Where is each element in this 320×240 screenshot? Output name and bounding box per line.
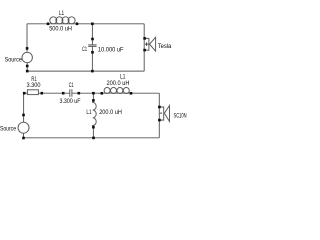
- svg-text:Source: Source: [5, 56, 23, 63]
- svg-text:C1: C1: [82, 46, 87, 53]
- terminal dot speaker SC10N upper stub: [158, 106, 161, 109]
- wire R1 to C1: [38, 92, 69, 94]
- wire top circuit: left rail lower: [26, 63, 28, 71]
- wire top circuit: top-left segment: [27, 23, 48, 25]
- svg-text:SC10N: SC10N: [174, 113, 187, 120]
- wire bottom circuit: top-left corner to R1: [24, 92, 28, 94]
- terminal dot L1 series right: [130, 92, 133, 95]
- junction node shunt L1 top: [92, 92, 95, 95]
- terminal dot C1 upper: [91, 38, 94, 41]
- wire C1 to L1: [72, 92, 104, 94]
- inductor L1 (top, 500.0 uH) coil loops: [50, 17, 57, 24]
- junction node source bottom corner: [22, 137, 25, 140]
- resistor R1 body: [27, 90, 38, 95]
- terminal dot C1 lower: [91, 51, 94, 54]
- terminal dot speaker Tesla lower stub: [143, 49, 146, 52]
- svg-text:C1: C1: [69, 82, 74, 89]
- minus sign (SC10N polarity): [160, 112, 162, 114]
- svg-text:3.300 uF: 3.300 uF: [60, 98, 81, 105]
- terminal dot L1 series left: [101, 92, 104, 95]
- terminal dot source bottom (upper): [22, 114, 25, 117]
- inductor L1 (bottom series, 200.0 uH) coil loops: [104, 88, 110, 94]
- speaker Tesla cone: [150, 37, 156, 51]
- terminal dot speaker SC10N lower stub: [158, 119, 161, 122]
- junction node shunt L1 bottom: [92, 137, 95, 140]
- wire bottom circuit: right rail: [158, 93, 160, 138]
- inductor L1 (shunt) coil loops: [93, 101, 97, 126]
- speaker Tesla box stubs and bar: [144, 38, 149, 50]
- capacitor C1 (top) plates: [88, 45, 96, 47]
- terminal dot C1 bottom-circuit right: [78, 92, 81, 95]
- svg-text:L1: L1: [86, 109, 92, 116]
- wire under top inductor loops: [48, 23, 77, 25]
- terminal dot speaker Tesla upper stub: [143, 37, 146, 40]
- inductor L1 (shunt) upper wire: [92, 93, 94, 101]
- terminal dot source top (lower): [26, 65, 29, 68]
- wire bottom circuit: left rail upper: [23, 93, 25, 122]
- wire under series inductor loops: [104, 92, 130, 94]
- junction node C1 top branch: [91, 23, 94, 26]
- wire L1 to right rail: [130, 92, 160, 94]
- inductor L1 (shunt) lower wire: [92, 126, 94, 138]
- capacitor C1 (top) upper branch wire: [91, 24, 93, 45]
- wire top circuit: left rail upper: [26, 24, 28, 53]
- junction node source top corner: [26, 70, 29, 73]
- wire bottom circuit: left rail lower: [23, 133, 25, 138]
- plus sign (Tesla polarity): [145, 42, 149, 46]
- svg-text:3.300: 3.300: [27, 82, 42, 89]
- svg-text:200.0 uH: 200.0 uH: [99, 109, 122, 116]
- wire top circuit: top-right segment: [77, 23, 144, 25]
- svg-text:Tesla: Tesla: [158, 43, 172, 50]
- capacitor C1 (bottom) plates: [70, 89, 72, 96]
- junction node C1 bottom: [91, 70, 94, 73]
- svg-text:Source: Source: [0, 125, 16, 132]
- svg-text:10.000 uF: 10.000 uF: [98, 46, 124, 53]
- terminal dot source top (upper): [26, 47, 29, 50]
- wire top circuit: right rail: [143, 24, 145, 71]
- terminal dot L1 top-right: [76, 23, 79, 26]
- source (top) circle: [22, 52, 32, 62]
- terminal dot C1 bottom-circuit left: [62, 92, 65, 95]
- speaker SC10N cone: [164, 106, 169, 122]
- terminal dot R1 right: [41, 92, 44, 95]
- wire bottom circuit: bottom segment: [24, 137, 160, 139]
- capacitor C1 (top) lower branch wire: [91, 47, 93, 72]
- terminal dot shunt L1 upper: [92, 99, 95, 102]
- source (bottom) circle: [18, 122, 29, 133]
- terminal dot shunt L1 lower: [92, 126, 95, 129]
- svg-text:L1: L1: [59, 10, 65, 17]
- svg-text:200.0 uH: 200.0 uH: [107, 80, 130, 87]
- wire top circuit: bottom segment: [27, 70, 144, 72]
- svg-text:500.0 uH: 500.0 uH: [49, 25, 72, 32]
- terminal dot L1 top-left: [47, 23, 50, 26]
- junction node R1 left: [23, 92, 26, 95]
- speaker SC10N box stubs and bar: [159, 107, 163, 120]
